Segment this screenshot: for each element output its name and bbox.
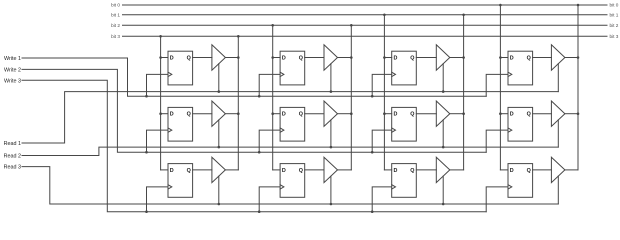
junction column 1 row 1 output tap <box>237 56 240 59</box>
clock chevron of U12 <box>280 72 284 76</box>
wire clock tap U14 <box>486 74 508 96</box>
wire enable of T33 <box>442 176 444 204</box>
svg-text:bit 1: bit 1 <box>111 12 120 17</box>
svg-text:bit 0: bit 0 <box>111 3 120 8</box>
junction enable T12 on read line <box>330 90 333 93</box>
junction enable T22 on read line <box>330 146 333 149</box>
wire clock tap U13 <box>372 74 392 96</box>
svg-text:D: D <box>282 112 286 118</box>
wire D input stub U23 <box>384 113 391 115</box>
svg-text:Q: Q <box>410 55 414 61</box>
tri-state buffer T21 (row 2, column 1) <box>212 101 226 126</box>
svg-text:Read 2: Read 2 <box>4 154 21 160</box>
svg-text:D: D <box>394 112 398 118</box>
svg-text:Q: Q <box>410 168 414 174</box>
wire enable of T21 <box>218 120 220 147</box>
wire column 3 output vertical <box>463 15 465 170</box>
wire clock tap U21 <box>147 130 169 152</box>
junction enable T33 on read line <box>442 203 445 206</box>
tri-state buffer T31 (row 3, column 1) <box>212 157 226 182</box>
wire clock tap U33 <box>372 187 392 212</box>
svg-text:Q: Q <box>410 112 414 118</box>
junction clock tap U23 on write line <box>371 151 374 154</box>
wire D input stub U31 <box>161 169 168 171</box>
wire enable of T14 <box>557 64 559 92</box>
flip-flop U12 (row 1, column 2) <box>280 51 305 85</box>
junction column 1 row 1 data tap <box>159 56 162 59</box>
flip-flop U22 (row 2, column 2) <box>280 107 305 141</box>
wire Q output U14 <box>533 57 552 59</box>
junction enable T21 on read line <box>218 146 221 149</box>
svg-text:Write 3: Write 3 <box>4 78 21 84</box>
wire buffer output T22 <box>338 113 352 115</box>
junction column 3 row 1 data tap <box>383 56 386 59</box>
junction column 2 row 2 data tap <box>271 112 274 115</box>
flip-flop U34 (row 3, column 4) <box>508 164 533 198</box>
clock chevron of U31 <box>168 185 172 189</box>
wire D input stub U33 <box>384 169 391 171</box>
wire bus bit 3 horizontal <box>123 35 608 37</box>
wire column 2 output vertical <box>350 25 352 170</box>
svg-text:bit 2: bit 2 <box>111 23 120 28</box>
svg-text:bit 3: bit 3 <box>610 34 619 39</box>
wire enable of T11 <box>218 64 220 92</box>
junction column 4 row 1 output tap <box>577 56 580 59</box>
wire buffer output T21 <box>225 113 238 115</box>
wire bus bit 2 horizontal <box>123 24 608 26</box>
junction clock tap U33 on write line <box>371 210 374 213</box>
flip-flop U33 (row 3, column 3) <box>392 164 417 198</box>
svg-text:Read 3: Read 3 <box>4 165 21 171</box>
wire D input stub U11 <box>161 57 168 59</box>
wire D input stub U34 <box>500 169 508 171</box>
wire buffer output T33 <box>450 169 464 171</box>
svg-text:bit 3: bit 3 <box>111 34 120 39</box>
tri-state buffer T13 (row 1, column 3) <box>436 45 450 70</box>
wire clock tap U24 <box>486 130 508 152</box>
tri-state buffer T14 (row 1, column 4) <box>551 45 565 70</box>
junction enable T31 on read line <box>218 203 221 206</box>
svg-text:Q: Q <box>527 55 531 61</box>
wire clock tap U32 <box>259 187 280 212</box>
flip-flop U11 (row 1, column 1) <box>168 51 193 85</box>
junction column 2 row 2 output tap <box>350 112 353 115</box>
flip-flop U32 (row 3, column 2) <box>280 164 305 198</box>
wire Write 1 net (label line, riser, row 1 write line) <box>22 58 486 96</box>
svg-text:Q: Q <box>187 112 191 118</box>
tri-state buffer T23 (row 2, column 3) <box>436 101 450 126</box>
svg-text:D: D <box>170 168 174 174</box>
svg-text:Q: Q <box>299 112 303 118</box>
svg-text:D: D <box>170 55 174 61</box>
svg-text:bit 1: bit 1 <box>610 12 619 17</box>
junction column 1 data-in to bus <box>159 35 162 38</box>
junction enable T11 on read line <box>218 90 221 93</box>
wire clock tap U34 <box>486 187 508 212</box>
junction clock tap U32 on write line <box>258 210 261 213</box>
junction column 2 data-in to bus <box>271 24 274 27</box>
flip-flop U23 (row 2, column 3) <box>392 107 417 141</box>
wire buffer output T32 <box>338 169 352 171</box>
clock chevron of U13 <box>392 72 396 76</box>
wire Write 3 net (label line, riser, row 3 write line) <box>22 80 486 211</box>
wire clock tap U22 <box>259 130 280 152</box>
junction clock tap U21 on write line <box>145 151 148 154</box>
flip-flop U13 (row 1, column 3) <box>392 51 417 85</box>
wire D input stub U24 <box>500 113 508 115</box>
junction column 3 output to bus <box>462 14 465 17</box>
svg-text:Q: Q <box>527 168 531 174</box>
wire buffer output T23 <box>450 113 464 115</box>
wire enable of T32 <box>330 176 332 204</box>
clock chevron of U11 <box>168 72 172 76</box>
wire Q output U33 <box>416 169 436 171</box>
wire column 1 output vertical <box>237 36 239 170</box>
svg-text:Write 1: Write 1 <box>4 56 21 62</box>
wire clock tap U31 <box>147 187 169 212</box>
wire Q output U13 <box>416 57 436 59</box>
wire Q output U23 <box>416 113 436 115</box>
wire buffer output T13 <box>450 57 464 59</box>
flip-flop U21 (row 2, column 1) <box>168 107 193 141</box>
junction column 2 row 1 data tap <box>271 56 274 59</box>
junction column 4 row 2 data tap <box>499 112 502 115</box>
flip-flop U14 (row 1, column 4) <box>508 51 533 85</box>
wire D input stub U21 <box>161 113 168 115</box>
junction column 4 row 2 output tap <box>577 112 580 115</box>
wire Q output U34 <box>533 169 552 171</box>
svg-text:D: D <box>282 168 286 174</box>
clock chevron of U24 <box>508 128 512 132</box>
svg-text:Write 2: Write 2 <box>4 67 21 73</box>
wire enable of T34 <box>557 176 559 204</box>
junction column 3 data-in to bus <box>383 14 386 17</box>
tri-state buffer T34 (row 3, column 4) <box>551 157 565 182</box>
wire enable of T31 <box>218 176 220 204</box>
svg-text:bit 0: bit 0 <box>610 3 619 8</box>
clock chevron of U22 <box>280 128 284 132</box>
svg-text:D: D <box>394 55 398 61</box>
wire Q output U32 <box>305 169 324 171</box>
junction clock tap U31 on write line <box>145 210 148 213</box>
svg-text:D: D <box>394 168 398 174</box>
clock chevron of U23 <box>392 128 396 132</box>
tri-state buffer T33 (row 3, column 3) <box>436 157 450 182</box>
junction column 1 row 2 output tap <box>237 112 240 115</box>
svg-text:D: D <box>510 55 514 61</box>
junction column 4 row 1 data tap <box>499 56 502 59</box>
wire column 4 output vertical <box>577 5 579 170</box>
tri-state buffer T32 (row 3, column 2) <box>324 157 338 182</box>
wire column 3 data-in vertical <box>383 15 385 170</box>
wire enable of T13 <box>442 64 444 92</box>
junction column 2 output to bus <box>350 24 353 27</box>
junction column 4 output to bus <box>577 4 580 7</box>
wire enable of T24 <box>557 120 559 147</box>
junction column 1 output to bus <box>237 35 240 38</box>
junction column 3 row 2 data tap <box>383 112 386 115</box>
svg-text:Read 1: Read 1 <box>4 141 21 147</box>
svg-text:Q: Q <box>527 112 531 118</box>
wire clock tap U11 <box>147 74 169 96</box>
wire Q output U21 <box>193 113 212 115</box>
svg-text:D: D <box>170 112 174 118</box>
wire bus bit 0 horizontal <box>123 4 608 6</box>
wire buffer output T31 <box>225 169 238 171</box>
wire bus bit 1 horizontal <box>123 14 608 16</box>
wire clock tap U23 <box>372 130 392 152</box>
wire enable of T12 <box>330 64 332 92</box>
wire column 1 data-in vertical <box>160 36 162 170</box>
wire D input stub U13 <box>384 57 391 59</box>
svg-text:Q: Q <box>299 168 303 174</box>
wire enable of T23 <box>442 120 444 147</box>
wire D input stub U12 <box>273 57 280 59</box>
junction column 3 row 1 output tap <box>462 56 465 59</box>
wire Q output U22 <box>305 113 324 115</box>
wire buffer output T12 <box>338 57 352 59</box>
junction column 1 row 2 data tap <box>159 112 162 115</box>
tri-state buffer T24 (row 2, column 4) <box>551 101 565 126</box>
wire clock tap U12 <box>259 74 280 96</box>
svg-text:D: D <box>510 112 514 118</box>
wire Q output U11 <box>193 57 212 59</box>
wire column 2 data-in vertical <box>272 25 274 170</box>
svg-text:Q: Q <box>187 55 191 61</box>
junction enable T23 on read line <box>442 146 445 149</box>
wire D input stub U22 <box>273 113 280 115</box>
clock chevron of U21 <box>168 128 172 132</box>
junction enable T13 on read line <box>442 90 445 93</box>
wire Read 1 net (label line, riser, row 1 read line) <box>22 92 558 143</box>
flip-flop U24 (row 2, column 4) <box>508 107 533 141</box>
junction clock tap U12 on write line <box>258 95 261 98</box>
clock chevron of U34 <box>508 185 512 189</box>
junction enable T32 on read line <box>330 203 333 206</box>
wire Q output U24 <box>533 113 552 115</box>
junction clock tap U11 on write line <box>145 95 148 98</box>
tri-state buffer T11 (row 1, column 1) <box>212 45 226 70</box>
wire Q output U31 <box>193 169 212 171</box>
junction clock tap U13 on write line <box>371 95 374 98</box>
wire buffer output T34 <box>565 169 578 171</box>
wire buffer output T24 <box>565 113 578 115</box>
wire column 4 data-in vertical <box>499 5 501 170</box>
junction column 3 row 2 output tap <box>462 112 465 115</box>
flip-flop U31 (row 3, column 1) <box>168 164 193 198</box>
clock chevron of U33 <box>392 185 396 189</box>
svg-text:D: D <box>510 168 514 174</box>
wire Q output U12 <box>305 57 324 59</box>
tri-state buffer T12 (row 1, column 2) <box>324 45 338 70</box>
wire buffer output T11 <box>225 57 238 59</box>
wire buffer output T14 <box>565 57 578 59</box>
junction clock tap U22 on write line <box>258 151 261 154</box>
wire D input stub U32 <box>273 169 280 171</box>
svg-text:Q: Q <box>299 55 303 61</box>
wire enable of T22 <box>330 120 332 147</box>
junction column 2 row 1 output tap <box>350 56 353 59</box>
svg-text:bit 2: bit 2 <box>610 23 619 28</box>
junction column 4 data-in to bus <box>499 4 502 7</box>
wire D input stub U14 <box>500 57 508 59</box>
wire Read 2 net (label line, riser, row 2 read line) <box>22 147 558 155</box>
svg-text:D: D <box>282 55 286 61</box>
svg-text:Q: Q <box>187 168 191 174</box>
wire Read 3 net (label line, riser, row 3 read line) <box>22 167 558 204</box>
tri-state buffer T22 (row 2, column 2) <box>324 101 338 126</box>
clock chevron of U32 <box>280 185 284 189</box>
wire Write 2 net (label line, riser, row 2 write line) <box>22 69 486 152</box>
clock chevron of U14 <box>508 72 512 76</box>
